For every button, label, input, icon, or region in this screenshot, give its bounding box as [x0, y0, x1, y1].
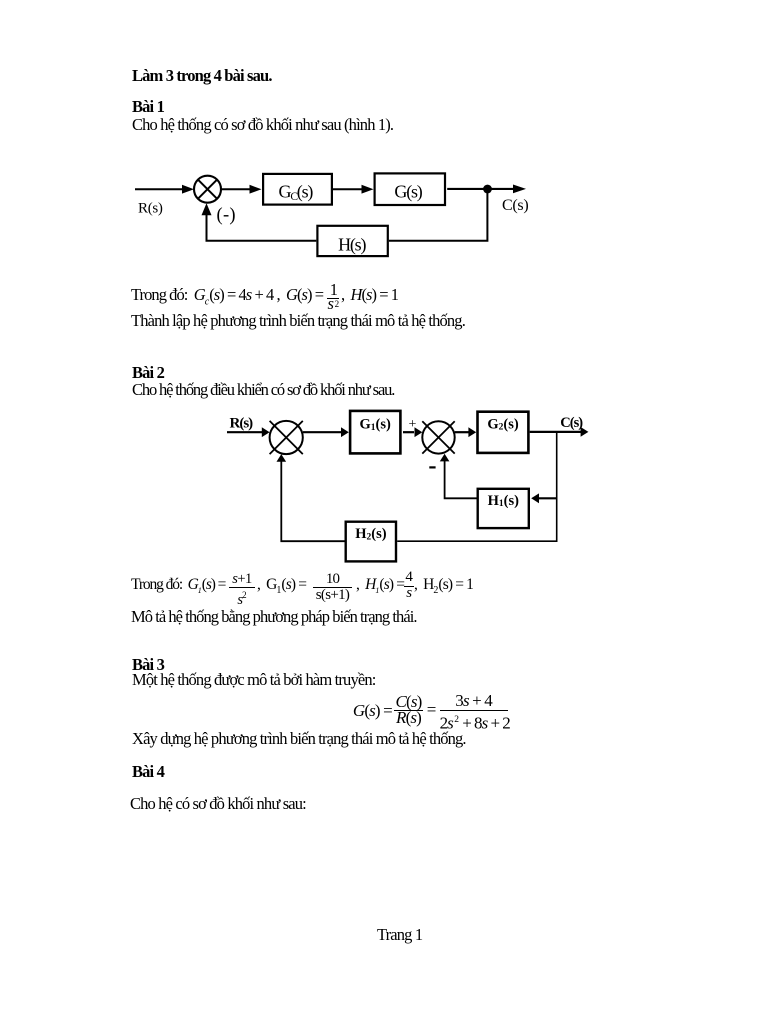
block H(s) — [317, 226, 387, 256]
fraction 4/s — [404, 569, 413, 586]
arrowhead into G2 — [468, 427, 476, 437]
Bai 3 task — [132, 730, 466, 747]
wire: H1 to junction B bottom — [445, 461, 477, 498]
arrowhead into junction A bottom — [277, 454, 287, 462]
Bai 4 intro — [130, 795, 306, 812]
svg-text:H1(s): H1(s) — [488, 493, 520, 509]
wire: junction to Gc — [221, 188, 251, 190]
block Gc(s) — [263, 174, 332, 205]
equals — [427, 701, 436, 718]
svg-text:GC(s): GC(s) — [279, 182, 314, 204]
minus sign — [429, 466, 435, 468]
arrowhead into Gc — [250, 185, 262, 194]
wire: branch into H1 — [539, 497, 557, 499]
Bai 4 heading — [132, 763, 164, 780]
arrowhead into G1 — [341, 427, 349, 437]
node dot — [483, 185, 492, 194]
Bai 2 given line, segment 3 — [356, 576, 404, 599]
svg-text:(-): (-) — [217, 206, 236, 226]
footer page number — [377, 926, 422, 943]
wire: Gc to G — [333, 188, 364, 190]
arrowhead into junction B bottom — [440, 454, 450, 462]
Bai 2 given line, segment 2 — [257, 576, 306, 599]
Bai 2 intro — [132, 381, 394, 398]
block G(s) — [375, 173, 445, 205]
Bai 3 heading — [132, 656, 164, 673]
arrowhead into G — [362, 185, 374, 194]
summing junction B — [422, 421, 454, 453]
wire: G1 to junction B — [403, 431, 414, 433]
wire: H2 to junction A bottom — [281, 462, 344, 542]
block H2(s) — [346, 522, 396, 562]
wire: G to output — [447, 188, 513, 190]
Bai 1 given line — [131, 286, 323, 310]
fraction 1/s^2 — [327, 281, 340, 298]
wire: branch down from output — [397, 432, 557, 541]
Bai 2 heading — [132, 364, 164, 381]
wire: H to junction bottom — [207, 214, 317, 241]
block G1(s) — [350, 411, 400, 454]
block H1(s) — [478, 489, 529, 528]
svg-text:R(s): R(s) — [230, 416, 254, 432]
wire: output line — [530, 431, 581, 433]
summing junction S1 — [194, 176, 221, 203]
svg-text:H(s): H(s) — [338, 235, 366, 256]
Bai 1 heading — [132, 98, 164, 115]
output arrowhead — [513, 185, 526, 194]
svg-text:H2(s): H2(s) — [355, 526, 387, 542]
svg-text:G(s): G(s) — [394, 182, 422, 203]
svg-text:G2(s): G2(s) — [487, 416, 519, 432]
arrowhead into junction S1 bottom — [202, 203, 212, 215]
output arrowhead — [581, 427, 589, 437]
Bai 3 formula: G(s) = — [353, 702, 392, 719]
block G2(s) — [478, 412, 529, 453]
svg-text:C(s): C(s) — [502, 197, 528, 214]
svg-text:G1(s): G1(s) — [360, 416, 392, 432]
wire: feedback from node down to H — [389, 189, 488, 241]
svg-text:C(s): C(s) — [560, 415, 583, 431]
Bai 1 intro — [132, 116, 393, 133]
fraction (s+1)/s^2 — [230, 571, 255, 588]
wire: B to G2 — [455, 431, 469, 433]
Bai 2 given line, segment 1 — [131, 576, 225, 599]
arrowhead into H1 — [531, 493, 539, 503]
arrowhead into junction B — [415, 427, 423, 437]
arrowhead into junction A — [262, 427, 270, 437]
fraction C(s)/R(s) — [394, 693, 423, 710]
wire: A to G1 — [303, 431, 342, 433]
fraction 10/(s(s+1)) — [313, 571, 352, 588]
wire: input line — [135, 188, 183, 190]
fraction (3s+4)/(2s^2+8s+2) — [440, 692, 508, 709]
Bai 2 given line, segment 4 — [414, 576, 473, 599]
wire: input to junction A — [227, 431, 263, 433]
Bai 1 task — [131, 312, 465, 329]
Bai 3 intro — [132, 671, 375, 688]
arrowhead into summing junction — [182, 185, 194, 194]
svg-text:R(s): R(s) — [138, 201, 163, 217]
title line — [132, 67, 272, 84]
Bai 2 task — [131, 608, 417, 625]
summing junction A — [270, 421, 303, 454]
